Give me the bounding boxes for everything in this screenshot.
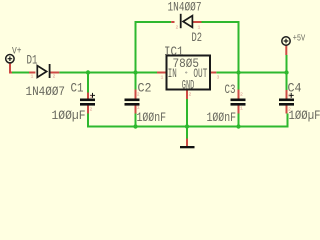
svg-text:2: 2 bbox=[176, 25, 179, 31]
svg-text:1ØØµF: 1ØØµF bbox=[289, 108, 320, 123]
svg-text:1: 1 bbox=[31, 74, 34, 80]
svg-text:V+: V+ bbox=[12, 47, 22, 58]
svg-text:C1: C1 bbox=[71, 81, 84, 95]
svg-text:2: 2 bbox=[90, 107, 93, 113]
svg-text:GND: GND bbox=[182, 79, 195, 93]
svg-text:+5V: +5V bbox=[293, 34, 306, 44]
svg-text:1N4ØØ7: 1N4ØØ7 bbox=[168, 0, 202, 14]
svg-text:C3: C3 bbox=[225, 83, 236, 97]
svg-text:IC1: IC1 bbox=[164, 45, 184, 59]
svg-text:2: 2 bbox=[189, 92, 192, 98]
svg-text:D1: D1 bbox=[27, 53, 38, 67]
svg-text:1: 1 bbox=[161, 75, 164, 81]
svg-text:1ØØnF: 1ØØnF bbox=[207, 110, 237, 125]
svg-text:1ØØnF: 1ØØnF bbox=[137, 110, 167, 125]
svg-text:2: 2 bbox=[53, 74, 56, 80]
svg-text:1N4ØØ7: 1N4ØØ7 bbox=[26, 84, 66, 99]
svg-text:IN: IN bbox=[168, 67, 177, 81]
svg-text:2: 2 bbox=[137, 92, 140, 98]
svg-text:D2: D2 bbox=[192, 31, 203, 45]
svg-text:2: 2 bbox=[288, 107, 291, 113]
svg-text:3: 3 bbox=[217, 75, 220, 81]
svg-text:1ØØµF: 1ØØµF bbox=[52, 108, 86, 123]
svg-text:1: 1 bbox=[288, 93, 291, 99]
svg-text:1: 1 bbox=[240, 106, 243, 112]
svg-text:1: 1 bbox=[137, 105, 140, 111]
svg-text:1: 1 bbox=[90, 94, 93, 100]
svg-text:OUT: OUT bbox=[193, 67, 207, 81]
svg-text:2: 2 bbox=[240, 92, 243, 98]
svg-text:1: 1 bbox=[198, 25, 201, 31]
